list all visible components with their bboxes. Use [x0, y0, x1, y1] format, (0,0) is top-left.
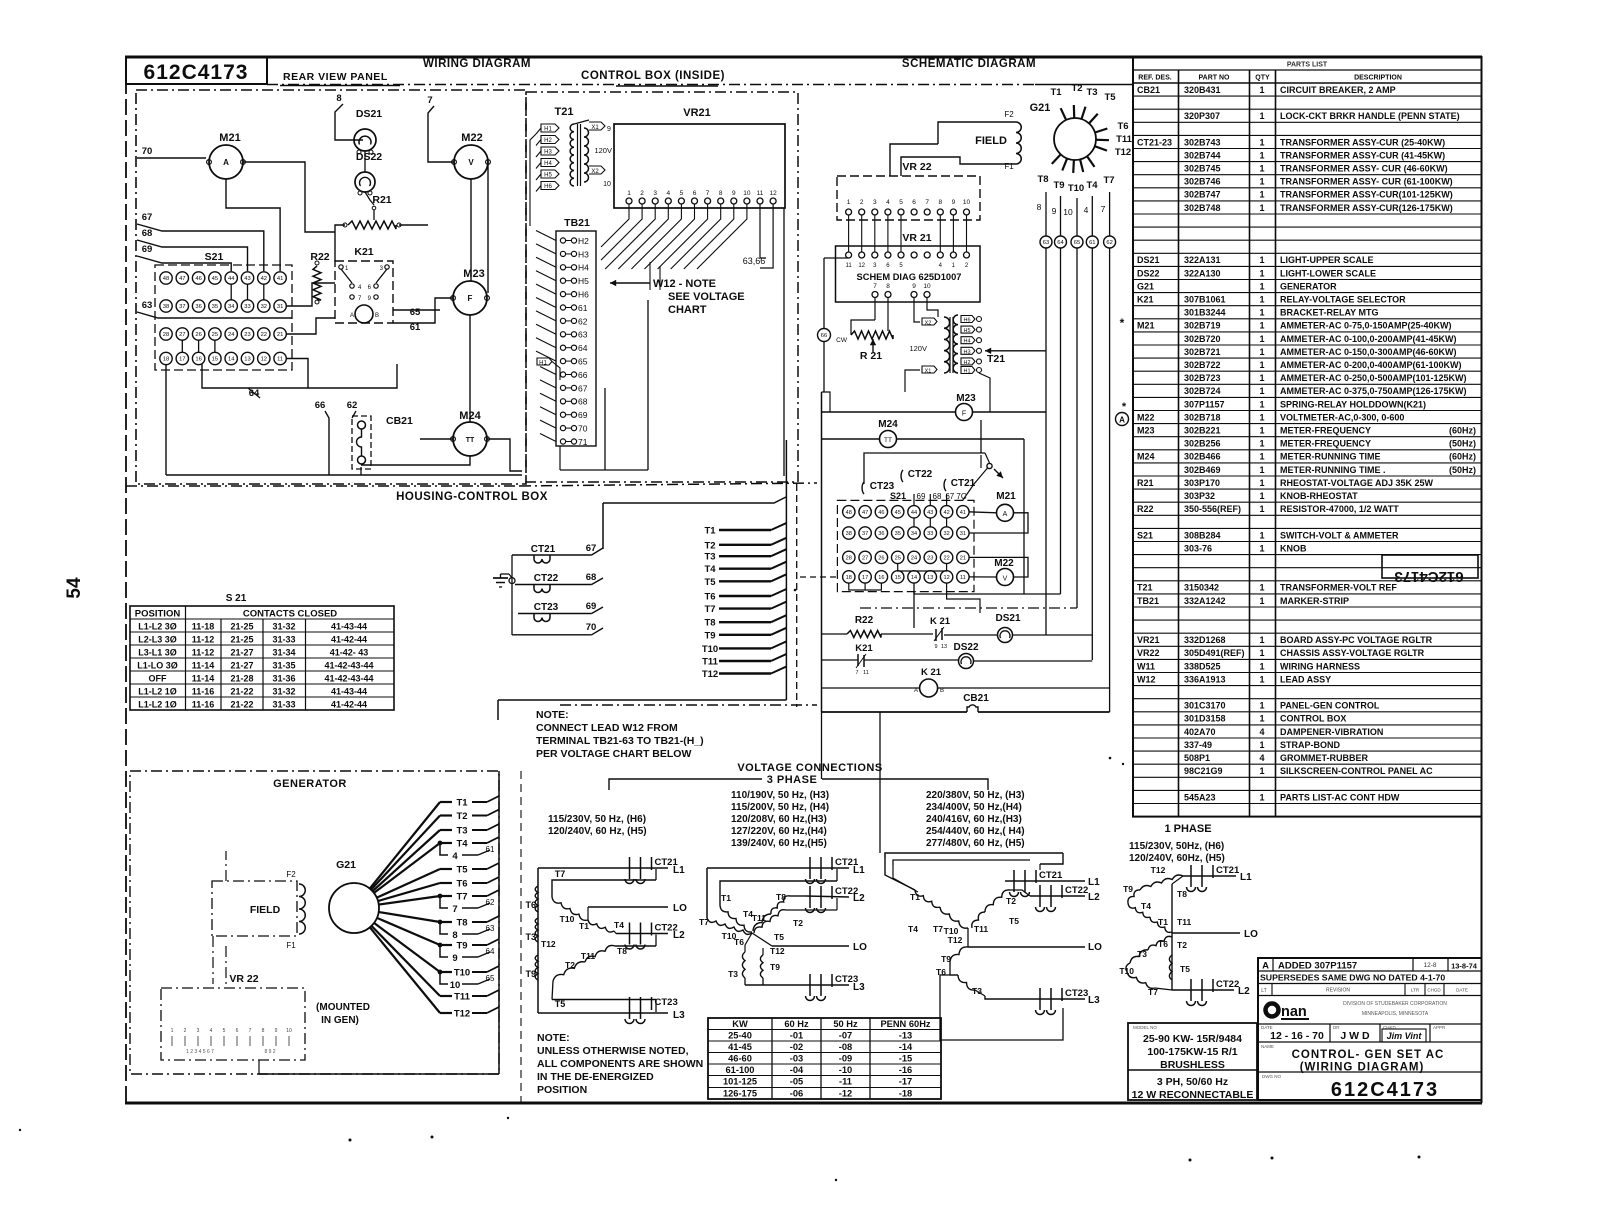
svg-text:17: 17	[862, 575, 868, 581]
wire 8 drop	[335, 93, 363, 140]
svg-text:1: 1	[1259, 701, 1264, 711]
svg-text:F2: F2	[1004, 110, 1014, 119]
svg-text:26: 26	[195, 332, 201, 338]
svg-text:120/240V, 60 Hz, (H5): 120/240V, 60 Hz, (H5)	[548, 826, 647, 837]
winding diagram 1 phase	[1119, 865, 1258, 1006]
svg-text:T9: T9	[1053, 180, 1064, 191]
svg-text:61: 61	[1089, 240, 1095, 246]
svg-text:G21: G21	[1030, 102, 1051, 114]
svg-text:CT21: CT21	[531, 544, 556, 555]
svg-text:307P1157: 307P1157	[1184, 399, 1225, 409]
divider generator voltage	[520, 771, 522, 1103]
current transformer CT23 schematic	[862, 481, 895, 494]
svg-text:T9: T9	[770, 962, 780, 972]
parts list table outer	[1133, 57, 1482, 817]
node 63 circled	[1040, 236, 1052, 248]
generator G21 schematic	[1030, 83, 1133, 194]
svg-text:W12: W12	[1137, 674, 1156, 684]
svg-text:15: 15	[895, 575, 901, 581]
label 63-66	[743, 256, 766, 266]
svg-text:T2: T2	[1071, 83, 1082, 94]
svg-text:-13: -13	[899, 1031, 912, 1041]
svg-text:301D3158: 301D3158	[1184, 714, 1226, 724]
svg-text:LEAD ASSY: LEAD ASSY	[1280, 674, 1331, 684]
svg-text:T4: T4	[614, 920, 624, 930]
svg-text:RELAY-VOLTAGE SELECTOR: RELAY-VOLTAGE SELECTOR	[1280, 295, 1406, 305]
svg-text:CHGD: CHGD	[1427, 988, 1441, 993]
svg-text:T12: T12	[1115, 147, 1131, 158]
svg-text:*: *	[1122, 401, 1127, 413]
wire S21 ties	[182, 284, 263, 352]
svg-text:T6: T6	[734, 937, 744, 947]
svg-text:69: 69	[917, 492, 926, 501]
svg-text:16: 16	[878, 575, 884, 581]
svg-text:H6: H6	[578, 290, 589, 300]
svg-text:336A1913: 336A1913	[1184, 674, 1226, 684]
svg-text:21: 21	[960, 555, 966, 561]
wire VR21 right edge	[783, 208, 785, 476]
svg-text:35: 35	[212, 304, 218, 310]
svg-text:X2: X2	[925, 321, 932, 327]
svg-text:1: 1	[1259, 635, 1264, 645]
svg-text:-02: -02	[790, 1042, 803, 1052]
svg-text:TRANSFORMER ASSY-CUR(126-175KW: TRANSFORMER ASSY-CUR(126-175KW)	[1280, 203, 1453, 213]
svg-text:(60Hz): (60Hz)	[1449, 452, 1476, 462]
svg-text:SCHEMATIC DIAGRAM: SCHEMATIC DIAGRAM	[902, 58, 1036, 70]
svg-text:DESCRIPTION: DESCRIPTION	[1354, 75, 1402, 82]
svg-text:63: 63	[142, 300, 153, 311]
note asterisk upper	[1120, 316, 1125, 330]
wire 65 vertical	[1076, 248, 1078, 608]
svg-text:L2: L2	[673, 930, 685, 941]
wire T21 H1 loop	[979, 373, 990, 412]
svg-text:10: 10	[1063, 207, 1073, 217]
svg-text:T4: T4	[1141, 901, 1151, 911]
svg-text:1: 1	[1259, 648, 1264, 658]
svg-text:7: 7	[427, 95, 432, 106]
svg-text:22: 22	[261, 332, 267, 338]
svg-text:H1: H1	[539, 361, 547, 367]
svg-text:APPR: APPR	[1433, 1025, 1446, 1030]
svg-text:R21: R21	[372, 194, 391, 206]
svg-text:CB21: CB21	[386, 415, 413, 427]
voltage regulator VR22 generator	[161, 973, 305, 1060]
svg-text:L2: L2	[1088, 892, 1100, 903]
svg-text:402A70: 402A70	[1184, 727, 1216, 737]
svg-text:8: 8	[262, 1028, 265, 1034]
svg-text:302B743: 302B743	[1184, 137, 1221, 147]
wire M22 column	[470, 179, 472, 281]
svg-text:PARTS LIST: PARTS LIST	[1287, 62, 1328, 69]
svg-text:1: 1	[1259, 766, 1264, 776]
svg-text:303-76: 303-76	[1184, 543, 1212, 553]
wire CB21 bottom	[361, 456, 470, 475]
svg-text:DIVISION OF STUDEBAKER CORP: DIVISION OF STUDEBAKER CORPORATION	[1343, 1001, 1447, 1007]
svg-text:322A131: 322A131	[1184, 255, 1221, 265]
svg-text:1: 1	[1259, 399, 1264, 409]
svg-text:K21: K21	[354, 246, 373, 258]
svg-text:7: 7	[925, 199, 929, 206]
svg-text:6: 6	[693, 190, 697, 197]
svg-text:F: F	[468, 294, 473, 303]
svg-text:T1: T1	[456, 798, 468, 809]
svg-text:4: 4	[1259, 727, 1264, 737]
svg-text:TT: TT	[466, 437, 475, 444]
svg-text:3: 3	[653, 190, 657, 197]
svg-text:8 9 2: 8 9 2	[264, 1049, 275, 1055]
svg-text:PENN 60Hz: PENN 60Hz	[880, 1019, 930, 1029]
svg-text:M21: M21	[219, 132, 240, 144]
svg-text:VR21: VR21	[1137, 635, 1160, 645]
svg-text:T1: T1	[579, 921, 589, 931]
wire M21 right	[243, 162, 335, 232]
wire 63	[137, 300, 292, 318]
svg-text:12 - 16 - 70: 12 - 16 - 70	[1270, 1030, 1324, 1042]
wire 70	[137, 146, 206, 158]
svg-text:41-42-44: 41-42-44	[331, 700, 367, 710]
svg-text:T8: T8	[1037, 174, 1048, 185]
svg-text:48: 48	[163, 276, 169, 282]
svg-text:3: 3	[197, 1028, 200, 1034]
relay coil K21 schematic	[822, 667, 1110, 697]
svg-text:31-33: 31-33	[272, 635, 295, 645]
wire VR21 fan	[601, 204, 773, 269]
wire schematic inner loop	[822, 392, 831, 412]
svg-text:LOCK-CKT BRKR HANDLE (PENN STA: LOCK-CKT BRKR HANDLE (PENN STATE)	[1280, 111, 1460, 121]
svg-text:Jim Vint: Jim Vint	[1387, 1031, 1423, 1041]
svg-text:BOARD ASSY-PC VOLTAGE RGLTR: BOARD ASSY-PC VOLTAGE RGLTR	[1280, 635, 1433, 645]
svg-text:T11: T11	[454, 992, 471, 1003]
svg-text:L3-L1 3Ø: L3-L1 3Ø	[138, 648, 177, 658]
border frame right	[1481, 57, 1483, 1103]
svg-text:L1: L1	[853, 865, 865, 876]
wire 68	[137, 228, 248, 271]
svg-text:H2: H2	[578, 236, 589, 246]
svg-text:DS21: DS21	[1137, 255, 1160, 265]
svg-text:TRANSFORMER ASSY- CUR (61-100K: TRANSFORMER ASSY- CUR (61-100KW)	[1280, 177, 1453, 187]
svg-text:DAMPENER-VIBRATION: DAMPENER-VIBRATION	[1280, 727, 1383, 737]
voltage regulator board VR21 schematic	[836, 232, 981, 302]
svg-text:7: 7	[706, 190, 710, 197]
wire T21 to TB21	[530, 134, 536, 226]
svg-text:120V: 120V	[594, 146, 612, 155]
wire schematic left vertical	[821, 392, 823, 712]
svg-text:24: 24	[228, 332, 235, 338]
svg-text:WIRING DIAGRAM: WIRING DIAGRAM	[423, 58, 531, 70]
svg-text:65: 65	[578, 357, 588, 367]
svg-text:62: 62	[578, 316, 588, 326]
svg-text:14: 14	[911, 575, 917, 581]
svg-text:CT23: CT23	[534, 602, 559, 613]
svg-text:115/200V, 50 Hz, (H4): 115/200V, 50 Hz, (H4)	[731, 802, 829, 813]
svg-text:DS22: DS22	[1137, 268, 1160, 278]
svg-text:301C3170: 301C3170	[1184, 701, 1226, 711]
svg-text:T8: T8	[704, 618, 715, 629]
transformer T21 control box	[536, 106, 612, 192]
svg-text:M24: M24	[878, 419, 898, 430]
svg-text:T6: T6	[704, 592, 715, 603]
svg-text:2: 2	[860, 199, 864, 206]
svg-text:CB21: CB21	[1137, 85, 1160, 95]
svg-text:70: 70	[578, 424, 588, 434]
svg-text:22: 22	[943, 555, 949, 561]
svg-text:1: 1	[1259, 439, 1264, 449]
svg-text:TRANSFORMER ASSY- CUR (46-60KW: TRANSFORMER ASSY- CUR (46-60KW)	[1280, 164, 1448, 174]
svg-text:38: 38	[846, 531, 852, 537]
svg-text:L2: L2	[1238, 986, 1250, 997]
svg-text:338D525: 338D525	[1184, 661, 1221, 671]
sheet number 54	[64, 577, 85, 599]
wire F1 to VR22	[901, 157, 1016, 176]
wire 64 vertical	[1060, 248, 1062, 594]
wire T21 X1 down	[905, 370, 920, 392]
wire F2 to VR22	[890, 122, 1016, 176]
svg-text:10: 10	[286, 1028, 292, 1034]
svg-text:139/240V, 60 Hz,(H5): 139/240V, 60 Hz,(H5)	[731, 838, 827, 849]
svg-text:302B722: 302B722	[1184, 360, 1221, 370]
svg-text:-06: -06	[790, 1089, 803, 1099]
svg-text:L1-L2 3Ø: L1-L2 3Ø	[138, 622, 177, 632]
svg-text:18: 18	[846, 575, 852, 581]
svg-text:T3: T3	[728, 969, 738, 979]
svg-text:1: 1	[1259, 203, 1264, 213]
svg-text:1: 1	[1259, 740, 1264, 750]
wire 67	[137, 212, 264, 271]
svg-text:GENERATOR: GENERATOR	[273, 778, 347, 790]
resistor R22 schematic	[847, 615, 881, 638]
svg-text:63: 63	[486, 924, 495, 933]
svg-text:WIRING HARNESS: WIRING HARNESS	[1280, 661, 1360, 671]
svg-text:7: 7	[1101, 204, 1106, 214]
svg-text:T4: T4	[704, 564, 716, 575]
svg-text:1: 1	[1259, 334, 1264, 344]
svg-text:B: B	[940, 688, 944, 694]
svg-text:CIRCUIT BREAKER, 2 AMP: CIRCUIT BREAKER, 2 AMP	[1280, 85, 1396, 95]
svg-text:3150342: 3150342	[1184, 583, 1219, 593]
svg-text:31-32: 31-32	[272, 687, 295, 697]
svg-text:27: 27	[179, 332, 185, 338]
ammeter M21	[207, 132, 246, 179]
svg-text:302B719: 302B719	[1184, 321, 1221, 331]
svg-text:T10: T10	[454, 968, 470, 979]
housing T1-T12 leads	[702, 523, 787, 680]
svg-text:612C4173: 612C4173	[1331, 1079, 1439, 1101]
svg-text:4: 4	[886, 199, 890, 206]
wire control box bottom	[560, 446, 648, 470]
svg-text:REF. DES.: REF. DES.	[1138, 75, 1172, 82]
svg-text:1: 1	[1259, 412, 1264, 422]
svg-text:T5: T5	[456, 865, 468, 876]
svg-text:H2: H2	[544, 138, 552, 144]
svg-text:RHEOSTAT-VOLTAGE ADJ 35K 25W: RHEOSTAT-VOLTAGE ADJ 35K 25W	[1280, 478, 1434, 488]
svg-text:CB21: CB21	[963, 693, 989, 704]
svg-text:308B284: 308B284	[1184, 530, 1221, 540]
svg-text:CT21: CT21	[1039, 870, 1063, 881]
note connect lead W12	[536, 709, 704, 760]
svg-text:9: 9	[607, 126, 611, 133]
svg-text:45: 45	[895, 510, 901, 516]
svg-text:12 W RECONNECTABLE: 12 W RECONNECTABLE	[1132, 1089, 1254, 1101]
svg-text:V: V	[1003, 576, 1008, 583]
svg-text:CT21: CT21	[951, 478, 976, 489]
svg-text:41-45: 41-45	[728, 1042, 752, 1052]
svg-text:302B720: 302B720	[1184, 334, 1221, 344]
svg-text:PANEL-GEN CONTROL: PANEL-GEN CONTROL	[1280, 701, 1380, 711]
svg-text:-05: -05	[790, 1077, 803, 1087]
svg-text:T3: T3	[1086, 87, 1097, 98]
svg-text:68: 68	[578, 397, 588, 407]
svg-text:-15: -15	[899, 1054, 912, 1064]
svg-text:320P307: 320P307	[1184, 111, 1220, 121]
svg-text:1: 1	[1259, 596, 1264, 606]
border frame top	[125, 56, 1482, 59]
svg-text:36: 36	[195, 304, 201, 310]
svg-text:T11: T11	[581, 951, 595, 961]
svg-text:T1: T1	[1050, 87, 1062, 98]
svg-text:T11: T11	[1116, 134, 1133, 145]
svg-text:65: 65	[1074, 240, 1080, 246]
generator lead fan	[370, 796, 499, 1020]
schematic lead numbers	[1037, 202, 1106, 217]
svg-text:1: 1	[1259, 321, 1264, 331]
svg-text:2: 2	[184, 1028, 187, 1034]
svg-text:T2: T2	[1006, 896, 1016, 906]
svg-text:1: 1	[1259, 373, 1264, 383]
svg-text:21-25: 21-25	[230, 622, 253, 632]
svg-text:1: 1	[1259, 465, 1264, 475]
svg-text:1: 1	[1259, 360, 1264, 370]
svg-text:69: 69	[586, 601, 597, 612]
light DS22	[355, 151, 382, 195]
svg-text:8: 8	[719, 190, 723, 197]
svg-text:TRANSFORMER ASSY-CUR (41-45KW): TRANSFORMER ASSY-CUR (41-45KW)	[1280, 150, 1445, 160]
circuit breaker CB21 schematic	[963, 693, 989, 712]
svg-text:T2: T2	[704, 540, 715, 551]
svg-text:W12 - NOTE: W12 - NOTE	[653, 278, 716, 290]
note de-energized	[537, 1032, 703, 1096]
svg-text:T4: T4	[908, 924, 918, 934]
svg-text:41-43-44: 41-43-44	[331, 622, 367, 632]
svg-text:T12: T12	[702, 669, 718, 680]
heading SCHEMATIC DIAGRAM	[902, 58, 1036, 70]
svg-text:CONTROL BOX (INSIDE): CONTROL BOX (INSIDE)	[581, 70, 725, 82]
heading CONTROL BOX (INSIDE)	[581, 70, 725, 86]
svg-text:50 Hz: 50 Hz	[833, 1019, 858, 1029]
svg-text:45: 45	[212, 276, 218, 282]
svg-text:VR 22: VR 22	[229, 973, 258, 985]
svg-text:11-16: 11-16	[192, 687, 215, 697]
svg-text:T9: T9	[704, 630, 715, 641]
svg-text:7: 7	[855, 670, 858, 676]
svg-text:-01: -01	[790, 1031, 803, 1041]
svg-text:41-42-43-44: 41-42-43-44	[324, 674, 373, 684]
date signature row	[1261, 1024, 1446, 1042]
voltage list low wye	[548, 814, 647, 837]
svg-text:302B748: 302B748	[1184, 203, 1221, 213]
svg-text:CW: CW	[836, 337, 848, 344]
svg-text:T5: T5	[1009, 916, 1019, 926]
svg-text:11: 11	[277, 357, 283, 363]
svg-text:(60Hz): (60Hz)	[1449, 426, 1476, 436]
svg-text:1: 1	[847, 199, 851, 206]
svg-text:11: 11	[757, 190, 764, 197]
svg-text:1: 1	[1259, 583, 1264, 593]
svg-text:9: 9	[934, 644, 937, 650]
svg-text:9: 9	[1052, 206, 1057, 216]
label mounted in gen	[316, 1002, 370, 1026]
svg-text:8: 8	[452, 930, 457, 941]
svg-text:AMMETER-AC 0-200,0-400AMP(61-1: AMMETER-AC 0-200,0-400AMP(61-100KW)	[1280, 360, 1462, 370]
svg-text:9: 9	[952, 199, 956, 206]
svg-text:(50Hz): (50Hz)	[1449, 439, 1476, 449]
model box	[1128, 1023, 1257, 1101]
wire VR22-VR21 links	[849, 215, 967, 252]
svg-text:21-22: 21-22	[230, 700, 253, 710]
svg-text:61: 61	[578, 303, 588, 313]
wire M24 right	[487, 439, 522, 471]
svg-text:-09: -09	[839, 1054, 852, 1064]
svg-text:31-33: 31-33	[272, 700, 295, 710]
svg-text:23: 23	[927, 555, 933, 561]
wire M22 right column	[487, 162, 489, 293]
svg-text:12-8: 12-8	[1423, 962, 1436, 969]
svg-text:SEE VOLTAGE: SEE VOLTAGE	[668, 291, 745, 303]
svg-text:11: 11	[845, 263, 852, 269]
svg-text:115/230V, 50Hz, (H6): 115/230V, 50Hz, (H6)	[1129, 841, 1224, 852]
svg-text:332A1242: 332A1242	[1184, 596, 1226, 606]
svg-text:1: 1	[1259, 308, 1264, 318]
svg-text:13: 13	[941, 644, 947, 650]
heading HOUSING-CONTROL BOX	[396, 491, 548, 503]
svg-text:350-556(REF): 350-556(REF)	[1184, 504, 1241, 514]
svg-text:11-14: 11-14	[192, 661, 215, 671]
svg-text:54: 54	[64, 577, 85, 599]
svg-text:SILKSCREEN-CONTROL PANEL AC: SILKSCREEN-CONTROL PANEL AC	[1280, 766, 1433, 776]
svg-text:A: A	[914, 688, 918, 694]
svg-text:NOTE:: NOTE:	[537, 1032, 570, 1044]
svg-text:41-42-43-44: 41-42-43-44	[324, 661, 373, 671]
rheostat R21 schematic	[836, 298, 893, 362]
heading WIRING DIAGRAM	[423, 58, 531, 70]
wire housing stub down	[879, 712, 881, 853]
svg-text:35: 35	[895, 531, 901, 537]
svg-text:44: 44	[911, 510, 917, 516]
wire CT loop top	[864, 420, 1003, 500]
svg-text:1: 1	[1259, 491, 1264, 501]
svg-text:10: 10	[923, 283, 931, 290]
svg-text:DATE: DATE	[1456, 988, 1468, 993]
svg-text:612C4173: 612C4173	[144, 61, 249, 84]
svg-text:H4: H4	[544, 161, 552, 167]
winding diagram 115/230 wye	[525, 857, 687, 1024]
svg-text:RESISTOR-47000, 1/2 WATT: RESISTOR-47000, 1/2 WATT	[1280, 504, 1399, 514]
svg-text:-14: -14	[899, 1042, 913, 1052]
svg-text:K 21: K 21	[921, 667, 942, 678]
svg-text:(50Hz): (50Hz)	[1449, 465, 1476, 475]
rheostat R21	[343, 194, 401, 229]
svg-text:16: 16	[195, 357, 201, 363]
svg-text:9: 9	[912, 283, 916, 290]
svg-text:302B256: 302B256	[1184, 439, 1221, 449]
relay K21	[335, 246, 393, 323]
border frame bottom	[125, 1102, 1482, 1105]
svg-text:41-42-44: 41-42-44	[331, 635, 367, 645]
svg-text:302B469: 302B469	[1184, 465, 1221, 475]
svg-text:32: 32	[261, 304, 267, 310]
svg-text:LO: LO	[853, 942, 867, 953]
svg-text:KNOB-RHEOSTAT: KNOB-RHEOSTAT	[1280, 491, 1358, 501]
current transformer CT22 housing	[515, 572, 603, 593]
